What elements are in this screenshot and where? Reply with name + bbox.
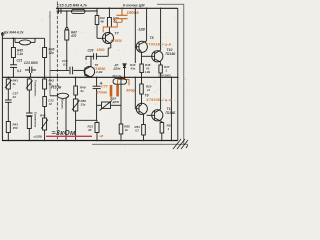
oval R16 <box>113 79 127 85</box>
label T9 <box>145 94 149 98</box>
input terminal <box>1 33 4 36</box>
label 100mk orange <box>127 10 140 15</box>
svg-text:Тонкомпенс.: Тонкомпенс. <box>34 80 38 97</box>
bottom rail nodes <box>8 140 173 142</box>
capacitor C23 <box>25 67 36 78</box>
label D7 <box>114 63 119 67</box>
capacitor C28 <box>26 113 33 116</box>
resistor R49 oval <box>72 9 86 13</box>
resistor R53 <box>95 123 99 141</box>
T11 collector wire <box>160 77 162 109</box>
orange C77 wires <box>111 80 129 100</box>
resistor R46 <box>43 48 47 58</box>
svg-text:РН Цк: РН Цк <box>113 74 122 78</box>
svg-text:4к: 4к <box>124 128 129 132</box>
label tonkompensatsia vertical <box>34 80 38 97</box>
capacitor C27 <box>5 100 12 102</box>
svg-text:4к: 4к <box>12 82 17 86</box>
label R49c <box>80 86 86 94</box>
transistor T8 <box>135 41 147 64</box>
label T10 <box>166 48 177 56</box>
label T7 <box>115 32 120 36</box>
left input wire <box>2 32 3 141</box>
label R45 <box>17 49 23 57</box>
T7 base wire <box>97 11 105 38</box>
label C25 <box>62 59 68 67</box>
svg-text:≈3кОм: ≈3кОм <box>52 128 77 137</box>
label KT603B orange <box>146 42 172 46</box>
T9 emitter resistor R51 <box>142 114 146 141</box>
chain x44 <box>44 77 46 140</box>
mid supply rail <box>2 76 178 78</box>
svg-text:100мк: 100мк <box>127 10 140 15</box>
potentiometer R44b <box>41 118 48 130</box>
transistor T6 <box>84 56 94 77</box>
svg-text:Т8: Т8 <box>150 36 154 40</box>
resistor R49c <box>74 86 78 95</box>
label 300p orange <box>126 88 136 93</box>
label gromkost vertical <box>34 112 38 128</box>
label C15 R49 <box>57 4 87 8</box>
node R34 <box>109 7 111 9</box>
diode D18 <box>97 101 121 111</box>
label R33k <box>51 85 62 90</box>
svg-text:1,2В: 1,2В <box>145 70 151 74</box>
svg-text:4В: 4В <box>99 19 103 23</box>
resistor R20 <box>139 77 143 106</box>
svg-text:12к: 12к <box>49 51 55 55</box>
svg-text:470: 470 <box>70 34 77 38</box>
label 1500 orange <box>97 48 105 52</box>
resistor R45 <box>11 48 15 58</box>
potentiometer R41 <box>5 79 12 89</box>
label R47b <box>164 65 170 72</box>
label R46 <box>49 48 55 56</box>
label R47 <box>70 31 77 39</box>
wire x118 <box>120 77 122 140</box>
capacitor C25 <box>70 67 73 75</box>
paper noise <box>3 1 187 147</box>
svg-text:Д7Ж: Д7Ж <box>112 100 120 104</box>
svg-text:43к: 43к <box>130 66 136 70</box>
svg-text:КТ603Б-і-ц-м: КТ603Б-і-ц-м <box>147 98 173 102</box>
svg-text:Д18а: Д18а <box>113 67 121 71</box>
svg-text:с0,25В: с0,25В <box>34 135 42 139</box>
capacitor C21 <box>10 65 17 68</box>
label R50 <box>81 99 87 107</box>
label C22 <box>48 99 54 107</box>
resistor R21 <box>43 97 47 107</box>
frame top line / supply rail <box>56 7 178 9</box>
svg-text:R44: R44 <box>40 114 46 118</box>
T9 base column <box>134 77 136 109</box>
label R34 <box>112 16 119 24</box>
chain x29 <box>28 77 30 140</box>
label R52 <box>167 124 173 132</box>
resistor R42 <box>43 79 47 89</box>
top rail nodes <box>121 8 161 10</box>
resistor R32 <box>95 16 99 25</box>
potentiometer R tone <box>26 79 33 90</box>
label R44b <box>40 114 46 118</box>
label CM5000 <box>159 74 172 78</box>
orange capacitor C77 bars <box>111 85 118 97</box>
svg-text:Громкость: Громкость <box>34 112 38 128</box>
label C23 <box>24 61 38 65</box>
svg-text:П214Б: П214Б <box>166 52 177 56</box>
orange label C77 <box>95 85 109 95</box>
label D18 <box>110 97 120 105</box>
svg-text:Баланс.: Баланс. <box>61 99 65 110</box>
label R32 <box>99 16 105 23</box>
wire left column <box>12 38 14 77</box>
label R41 <box>12 79 19 87</box>
branch wire to x97 <box>76 120 97 122</box>
svg-text:С77: С77 <box>101 85 109 89</box>
orange mark C8 <box>100 134 104 138</box>
svg-text:43: 43 <box>145 66 150 70</box>
label C27 <box>12 92 19 100</box>
label T8 <box>150 36 154 40</box>
long vertical wire x57 <box>56 2 58 141</box>
svg-text:КТ603і: КТ603і <box>111 39 123 43</box>
wire x96 down <box>96 105 98 120</box>
svg-text:-12В: -12В <box>138 28 146 32</box>
vertical wire x135 <box>134 8 136 63</box>
transistor T9 <box>135 103 147 114</box>
label R55 <box>124 125 130 133</box>
node top-left <box>13 37 15 39</box>
bottom rail <box>2 140 178 142</box>
label KT603 orange <box>111 39 123 43</box>
red underline <box>46 135 92 137</box>
label C26 <box>88 49 94 53</box>
svg-text:С26: С26 <box>88 49 94 53</box>
svg-text:С21: С21 <box>17 59 23 63</box>
chain x75 <box>75 77 77 140</box>
svg-text:11: 11 <box>147 88 150 92</box>
plus sign C24 <box>100 82 103 85</box>
label R48 value <box>145 63 151 74</box>
svg-text:R33к: R33к <box>51 85 62 90</box>
label KT605B orange <box>94 67 107 71</box>
frame corner hatch <box>173 139 188 149</box>
outer page frame <box>92 4 188 144</box>
svg-text:33к: 33к <box>81 103 86 107</box>
svg-text:Ц8: Ц8 <box>100 134 104 138</box>
wire x66 down <box>65 99 67 141</box>
svg-text:150: 150 <box>13 126 18 130</box>
label -0,2V <box>96 70 103 74</box>
vertical wire T10 collector <box>160 8 162 50</box>
svg-text:10: 10 <box>49 102 53 106</box>
resistor R43 <box>6 122 10 133</box>
svg-text:П214Б: П214Б <box>166 111 177 115</box>
node on row <box>66 10 98 12</box>
svg-text:300р: 300р <box>126 88 136 93</box>
resistor R47 with circle top <box>65 11 69 70</box>
svg-text:Вх R44 4,7к: Вх R44 4,7к <box>4 31 24 35</box>
svg-text:0,5: 0,5 <box>63 63 68 67</box>
transistor T7 <box>103 33 114 57</box>
potentiometer R50 <box>72 99 79 111</box>
svg-text:43: 43 <box>12 95 17 99</box>
paper background <box>0 0 188 150</box>
left lower chain x8 <box>7 77 9 140</box>
label 0,25V <box>34 135 42 139</box>
vertical wire x171 <box>170 77 172 140</box>
label KT603B orange 2 <box>147 98 173 102</box>
label -12V <box>138 28 146 32</box>
resistor R55 <box>119 124 123 134</box>
svg-text:470мк: 470мк <box>95 91 108 95</box>
fuse oval <box>15 38 35 45</box>
label R20 <box>146 85 152 93</box>
electrolytic C24 column <box>93 77 101 105</box>
svg-text:R32: R32 <box>100 16 105 20</box>
label R18 <box>130 63 136 70</box>
label R53 <box>87 125 93 133</box>
right rail vertical <box>177 8 179 140</box>
orange jumper wire <box>103 22 121 32</box>
diode D7 <box>123 64 126 79</box>
label T6 <box>95 63 99 67</box>
label balans vertical <box>61 99 65 110</box>
capacitor C15 <box>59 9 61 14</box>
svg-text:1500: 1500 <box>97 48 105 52</box>
long vertical wire x50 <box>49 11 51 96</box>
mid rail nodes <box>8 77 179 79</box>
svg-text:8к: 8к <box>81 89 85 93</box>
orange capacitor 100mk <box>113 8 127 22</box>
svg-text:КТ603Б-і-ц-м: КТ603Б-і-ц-м <box>146 42 172 46</box>
resistor R34 top <box>107 8 111 32</box>
svg-text:С15 0,25 R49 4,7к: С15 0,25 R49 4,7к <box>57 4 87 8</box>
oval lamp <box>50 93 69 99</box>
potentiometer volume <box>27 117 31 129</box>
svg-text:С23 5000: С23 5000 <box>24 61 38 65</box>
transistor T10 <box>142 50 163 65</box>
label R42 <box>48 79 55 87</box>
label 3kOm <box>52 128 77 137</box>
resistor R48 <box>140 64 143 77</box>
svg-text:0,1: 0,1 <box>17 69 22 73</box>
label K tochke <box>123 4 145 8</box>
wire right column R46 <box>44 38 46 77</box>
label R44 <box>4 31 24 35</box>
collector wire y56 <box>86 56 108 60</box>
svg-text:-0,2В: -0,2В <box>96 70 103 74</box>
svg-text:К точке ЦМ: К точке ЦМ <box>123 4 145 8</box>
vertical wire x146 top <box>146 8 148 41</box>
resistor R47b <box>159 65 162 77</box>
label T11 <box>166 107 177 115</box>
svg-text:1,1к: 1,1к <box>17 52 23 56</box>
top component row wire <box>57 8 98 11</box>
label D18a <box>113 67 121 71</box>
T11 emitter resistor R52 <box>160 121 164 140</box>
label R51 <box>134 125 140 133</box>
transistor T11 <box>147 109 163 121</box>
input wire top-left <box>2 37 45 39</box>
capacitor C26 <box>94 53 97 59</box>
label R16 <box>113 74 122 78</box>
svg-text:4,7: 4,7 <box>134 128 139 132</box>
label C21 <box>17 59 23 74</box>
signal wire to T6 <box>50 69 85 71</box>
label R43 <box>13 123 19 131</box>
